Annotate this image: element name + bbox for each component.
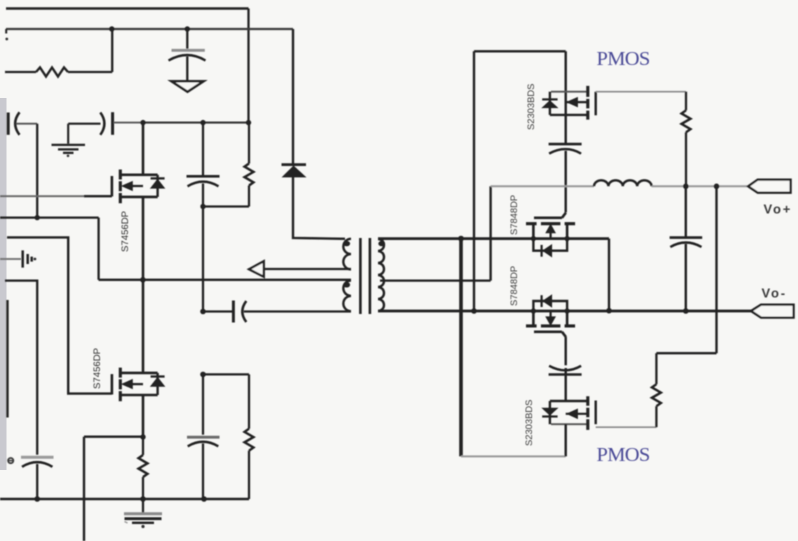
phase dot P1 — [343, 241, 350, 246]
wire y217 rail — [0, 216, 99, 218]
node J22 — [458, 236, 464, 242]
capacitor C5 curved plate — [22, 462, 52, 467]
capacitor C10 curved plate — [549, 149, 581, 154]
MOSFET H1 substrate arrow — [549, 232, 551, 239]
resistor R5 bottom lead — [685, 132, 687, 186]
wire cap to P2 — [565, 368, 567, 401]
capacitor C1 top plate — [172, 49, 205, 52]
resistor R4 — [245, 429, 254, 451]
resistor R2 — [245, 164, 254, 186]
wire gate loop corner1 — [7, 237, 112, 393]
capacitor C7 curved plate — [242, 301, 246, 322]
node J13 — [201, 496, 207, 502]
MOSFET H1 body diode triangle — [543, 245, 552, 257]
node J20 — [471, 308, 477, 314]
capacitor C2 bar plate — [7, 113, 10, 135]
rail secondary bottom — [378, 310, 751, 313]
wire x490 riser — [489, 186, 491, 280]
MOSFET H1 body diode bar — [540, 245, 542, 257]
node J1 — [109, 26, 114, 31]
capacitor C12 top plate — [670, 236, 703, 239]
MOSFET Q2 body diode triangle — [151, 378, 164, 387]
rail output top right gray — [652, 185, 749, 187]
wire x249 lower lead — [248, 451, 250, 499]
MOSFET H2 body diode triangle — [543, 295, 552, 307]
MOSFET Q1 body diode line — [156, 175, 158, 197]
wire x203 to C4 — [202, 123, 204, 176]
svg-text:S7848DP: S7848DP — [508, 195, 519, 235]
wire left end tick — [5, 29, 7, 34]
node H1 left — [531, 236, 536, 241]
wire x293 to diode — [292, 29, 294, 164]
capacitor C1 lower stem — [186, 57, 188, 81]
ground G4 bar3 — [132, 522, 154, 524]
node J23 — [683, 184, 689, 190]
wire x474 drop — [473, 51, 475, 311]
MOSFET Q2 source branch — [124, 383, 143, 385]
wire diode to transformer — [293, 177, 345, 239]
diode D1 cathode bar — [282, 163, 307, 166]
MOSFET Q1 gate plate — [111, 176, 114, 196]
arrow terminal A1 — [249, 261, 264, 277]
MOSFET H1 body diode loop — [533, 239, 567, 251]
wire H2 gate to cap — [565, 337, 567, 366]
MOSFET Q2 bottom bar — [121, 394, 158, 397]
wire C2 to corner — [16, 123, 37, 125]
MOSFET P2 bottom bar — [551, 423, 588, 425]
rail bottom y499 — [0, 498, 249, 500]
MOSFET P1 bottom bar — [550, 114, 588, 116]
wire P1 gate lead — [596, 91, 686, 93]
capacitor C2 curved plate — [15, 112, 19, 135]
MOSFET H2 right contact — [566, 311, 569, 326]
wire top corner — [474, 50, 566, 52]
capacitor C6 lower stem — [202, 444, 204, 500]
phase dot P2 — [343, 282, 350, 287]
wire resistor to riser — [68, 71, 112, 73]
wire bus elbow gray — [461, 455, 566, 457]
MOSFET Q2 source lead — [142, 395, 145, 437]
MOSFET P1 main line — [565, 51, 567, 143]
capacitor C7 bar plate — [232, 301, 235, 323]
capacitor C5 lower stem — [36, 464, 38, 499]
node J2 — [185, 26, 190, 31]
MOSFET Q1 arrow — [122, 182, 132, 191]
capacitor C1 stem — [186, 29, 188, 49]
MOSFET P2 middle branch — [566, 413, 588, 415]
wire resistor feed — [5, 71, 36, 73]
MOSFET P1 body diode triangle — [543, 101, 558, 108]
MOSFET H1 gate plate — [534, 213, 566, 218]
MOSFET P1 body diode line — [549, 92, 551, 115]
MOSFET H2 gate plate — [534, 332, 566, 337]
wire ground branch — [68, 124, 100, 144]
MOSFET H1 right contact — [566, 224, 569, 239]
capacitor C12 upper lead — [685, 186, 687, 236]
capacitor C10 top plate — [549, 143, 582, 146]
wire center tap — [380, 279, 491, 281]
MOSFET Q2 gate plate — [111, 374, 114, 394]
MOSFET P1 gate plate — [595, 92, 597, 116]
rail output top gray — [491, 185, 594, 187]
capacitor C3 curved plate — [100, 113, 104, 135]
resistor R6 top lead — [655, 353, 657, 384]
resistor R3 — [139, 455, 148, 477]
capacitor C6 curved plate — [188, 442, 219, 447]
MOSFET Q1 drain lead — [142, 123, 145, 175]
wire riser to second rail — [111, 29, 113, 72]
MOSFET Q1 gate wire gray — [0, 195, 84, 197]
stray mark — [125, 522, 128, 524]
resistor R1 — [36, 68, 68, 77]
transformer T1 secondary winding — [378, 239, 384, 311]
MOSFET P1 channel bar — [586, 86, 589, 120]
wire x84 drop — [83, 437, 85, 541]
wire R3 bottom lead — [142, 477, 144, 499]
ground G4 bar2 — [125, 517, 162, 520]
resistor R5 — [682, 110, 691, 132]
wire x249 upper lead — [248, 374, 250, 428]
node J24 — [714, 184, 720, 190]
MOSFET Q1 channel bar — [119, 170, 122, 204]
MOSFET H2 channel bar — [526, 324, 575, 327]
node J3 — [140, 120, 145, 125]
transformer T1 primary winding 2 — [343, 281, 351, 312]
node J9 — [140, 434, 145, 439]
MOSFET Q1 bottom bar — [121, 196, 158, 199]
MOSFET H2 arrowhead — [546, 317, 555, 325]
wire x203 mid section — [202, 207, 204, 312]
svg-text:S7456DP: S7456DP — [120, 211, 131, 252]
resistor R5 top lead — [685, 92, 687, 111]
ground G4 stem — [142, 499, 144, 513]
MOSFET P1 middle branch — [566, 101, 588, 103]
capacitor C1 curved plate — [169, 55, 206, 61]
node H2 left — [531, 308, 536, 313]
wire y437 left — [84, 436, 143, 438]
terminal Vo- flag — [751, 305, 794, 318]
node stray dot — [5, 38, 8, 41]
node J7 — [35, 215, 40, 220]
wire y353 link — [656, 352, 716, 354]
scan-edge gray band (decor) — [0, 98, 7, 470]
wire arrow to winding — [264, 268, 351, 270]
capacitor C4 curved plate — [188, 182, 219, 187]
terminal Vo+ flag — [748, 180, 790, 193]
ground G3 sideways — [23, 250, 32, 267]
bus x461 — [459, 239, 463, 457]
MOSFET P2 main line lower — [565, 424, 567, 456]
node J8 — [140, 277, 146, 283]
ground arrow G1 — [172, 81, 204, 92]
wire C7 to winding — [244, 310, 351, 312]
MOSFET P2 arrow — [567, 409, 577, 418]
ground G4 bars — [124, 512, 162, 515]
MOSFET P2 top bar — [550, 400, 588, 402]
node J14 — [200, 309, 206, 315]
MOSFET Q1 gate wire dark — [84, 195, 112, 197]
MOSFET Q1 source branch — [124, 185, 143, 187]
wire x716 drop — [715, 186, 717, 353]
svg-text:PMOS: PMOS — [597, 444, 650, 466]
ground G2 — [52, 145, 86, 153]
svg-text:S7848DP: S7848DP — [508, 266, 519, 306]
wire x203 to C6 — [202, 374, 204, 434]
capacitor C12 lower lead — [685, 244, 687, 311]
capacitor C11 bottom plate — [549, 373, 582, 376]
wire R3 top lead — [142, 437, 144, 455]
MOSFET P2 gate plate — [595, 401, 597, 425]
svg-text:S7456DP: S7456DP — [92, 348, 103, 389]
MOSFET Q2 body diode bar — [151, 375, 165, 377]
node J5 — [246, 120, 251, 125]
svg-text:Vo+: Vo+ — [764, 202, 793, 217]
wire P2 gate lead — [596, 426, 657, 428]
wire mid rail y122 — [114, 122, 146, 124]
MOSFET H1 arrowhead — [546, 225, 555, 233]
inductor L1 — [594, 180, 652, 186]
MOSFET H2 substrate arrow — [549, 311, 551, 318]
capacitor C12 curved plate — [670, 243, 701, 248]
wire primary cap feed — [203, 310, 233, 312]
wire stub left edge — [6, 300, 8, 418]
ground G4 dot — [141, 525, 144, 528]
MOSFET H2 left contact — [532, 311, 535, 326]
MOSFET Q1 source lead — [142, 197, 145, 280]
rail secondary top — [378, 237, 609, 240]
resistor R6 bottom lead — [655, 406, 657, 427]
wire RC bottom link — [203, 205, 249, 207]
transformer T1 primary winding 1 — [343, 239, 351, 270]
MOSFET P2 body diode line — [549, 401, 551, 424]
node H2 right — [565, 308, 570, 313]
MOSFET Q1 body diode triangle — [151, 180, 164, 189]
node J21 — [606, 308, 612, 314]
wire top rail — [6, 7, 249, 10]
ground G3 feed — [0, 258, 21, 260]
node J6 — [200, 204, 205, 209]
node J4 — [200, 120, 205, 125]
svg-text:PMOS: PMOS — [597, 48, 650, 70]
MOSFET Q2 drain lead — [142, 280, 145, 373]
MOSFET P2 body diode bar — [542, 415, 557, 417]
diode D1 triangle — [283, 166, 305, 177]
wire R2 bottom — [248, 186, 250, 207]
svg-text:S2303BDS: S2303BDS — [525, 84, 536, 130]
capacitor C4 top plate — [187, 175, 220, 178]
node H1 right — [565, 236, 570, 241]
capacitor C4 lower stem — [202, 184, 204, 207]
MOSFET Q2 body diode line — [156, 373, 158, 395]
MOSFET Q1 top bar — [121, 174, 158, 177]
wire y374 link — [203, 373, 249, 375]
MOSFET Q1 body diode bar — [151, 177, 165, 179]
node J12 — [140, 496, 146, 502]
MOSFET Q2 arrow — [122, 380, 132, 389]
MOSFET H1 channel bar — [526, 222, 575, 225]
MOSFET H2 body diode bar — [540, 295, 542, 307]
capacitor C5 top plate gray — [21, 456, 54, 459]
capacitor C3 bar plate — [111, 112, 114, 135]
MOSFET P1 arrow — [567, 98, 577, 107]
MOSFET H1 left contact — [532, 224, 535, 239]
transformer T1 core — [360, 238, 370, 314]
wire secondary top elbow — [608, 239, 610, 311]
svg-text:S2303BDS: S2303BDS — [523, 400, 534, 446]
node J10 — [200, 372, 206, 378]
svg-text:Vo-: Vo- — [762, 286, 787, 301]
ground G2 dot — [67, 155, 70, 158]
wire vertical from top rail — [247, 9, 249, 123]
wire x98 drop — [97, 218, 99, 280]
rail y280 — [99, 279, 351, 281]
capacitor C11 curved plate — [549, 366, 581, 371]
MOSFET Q2 channel bar — [119, 368, 122, 402]
node J25 — [683, 308, 689, 314]
phase dot P3 — [378, 241, 385, 246]
capacitor C6 top plate — [187, 436, 220, 439]
ground G3 dot — [34, 258, 37, 261]
resistor R6 — [652, 384, 661, 406]
MOSFET P2 body diode triangle — [543, 408, 558, 415]
wire vertical x37 upper — [36, 124, 38, 218]
MOSFET P1 top bar — [551, 91, 588, 93]
wire x249 to R2 — [248, 123, 250, 164]
MOSFET P2 channel bar — [586, 396, 589, 430]
wire second rail — [6, 28, 293, 30]
MOSFET H2 body diode loop — [533, 301, 567, 311]
MOSFET Q2 top bar — [121, 372, 158, 375]
MOSFET P1 body diode bar — [542, 98, 557, 100]
node J11 — [34, 496, 40, 502]
wire corner2 — [5, 281, 37, 455]
polarity mark C5 — [8, 458, 13, 463]
wire cap to H1 gate — [565, 151, 567, 213]
